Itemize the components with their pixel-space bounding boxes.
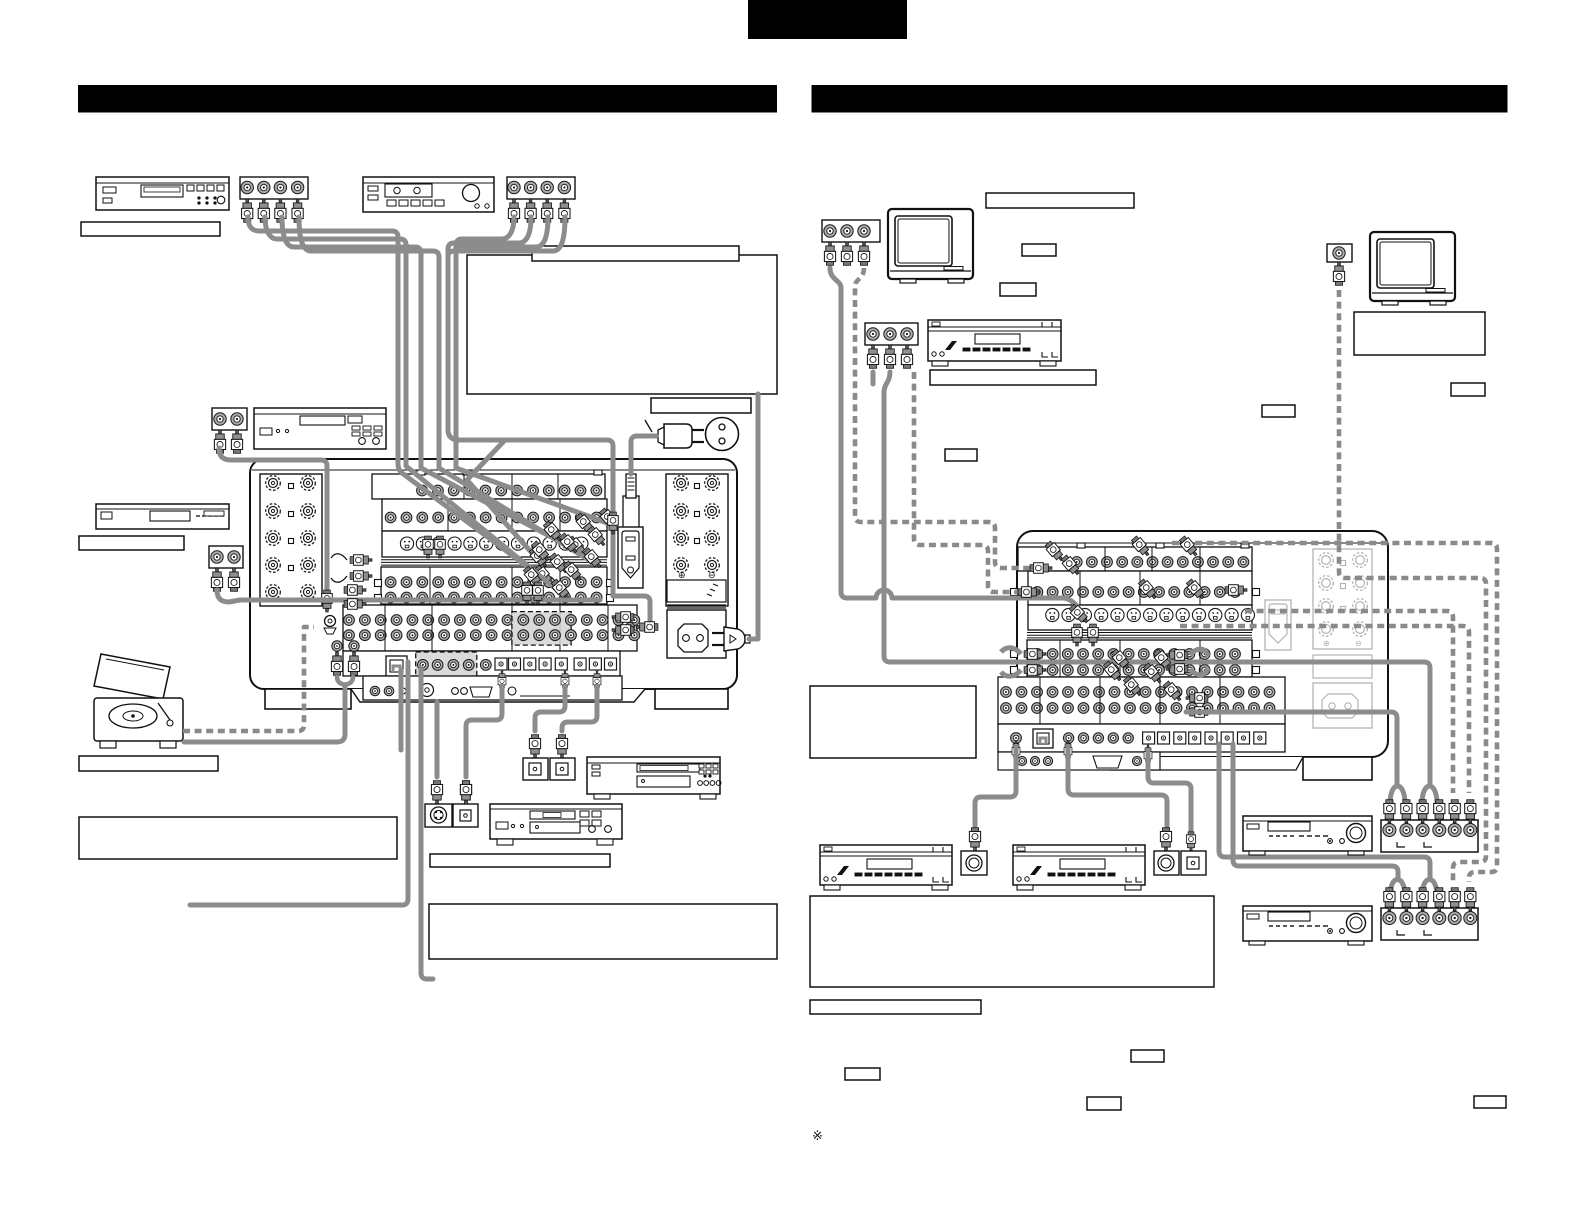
svg-text:⊖: ⊖ bbox=[1355, 639, 1362, 648]
svg-text:⊕: ⊕ bbox=[678, 570, 686, 580]
svg-text:⊕: ⊕ bbox=[1323, 639, 1330, 648]
svg-text:※: ※ bbox=[812, 1128, 823, 1143]
svg-text:⊖: ⊖ bbox=[708, 570, 716, 580]
